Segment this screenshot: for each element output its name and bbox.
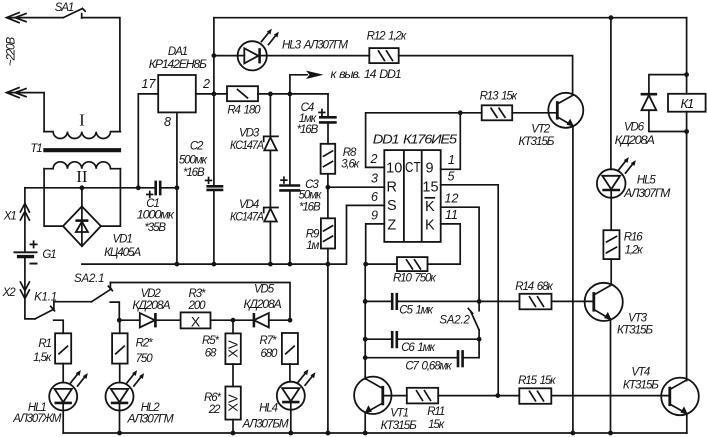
diode VD6 — [641, 75, 687, 132]
wire R9 to ground row and bus — [327, 249, 329, 434]
svg-text:АЛ307ЖМ: АЛ307ЖМ — [12, 413, 62, 425]
junction C6 left — [363, 337, 368, 342]
svg-text:R1: R1 — [38, 338, 51, 350]
junction VD4 ground — [268, 262, 273, 267]
wire pin5 down — [441, 185, 499, 396]
svg-text:Z: Z — [387, 217, 396, 233]
junction K1 bottom — [684, 129, 689, 134]
svg-text:R15 15к: R15 15к — [518, 375, 556, 387]
svg-text:HL3 АЛ307ГМ: HL3 АЛ307ГМ — [282, 39, 349, 51]
resistor R16 — [603, 230, 619, 259]
svg-text:X: X — [191, 313, 201, 329]
svg-text:2: 2 — [370, 152, 378, 166]
svg-text:750: 750 — [136, 353, 154, 365]
svg-text:КС147А: КС147А — [230, 140, 264, 152]
svg-text:R10 750к: R10 750к — [393, 272, 436, 284]
svg-text:R5*: R5* — [202, 335, 220, 347]
junction VT3 emitter bus — [608, 431, 613, 436]
wire top bus — [214, 17, 687, 19]
transistor VT1 — [354, 377, 391, 414]
junction output node — [212, 92, 217, 97]
svg-text:С5 1мк: С5 1мк — [399, 305, 433, 317]
label minus — [30, 263, 38, 265]
svg-text:КТ315Б: КТ315Б — [617, 325, 654, 337]
wire R5 top lead — [232, 320, 234, 333]
junction C5 right pin12 — [477, 299, 482, 304]
wire X1 battery column — [24, 188, 26, 251]
svg-text:R7*: R7* — [260, 335, 278, 347]
capacitor C3 — [279, 94, 300, 264]
resistor R15 — [519, 388, 551, 404]
svg-text:С2: С2 — [190, 141, 204, 153]
wire ground row — [82, 205, 347, 264]
junction HL2 bus — [117, 431, 122, 436]
svg-text:VT1: VT1 — [390, 408, 408, 420]
LED HL3 — [238, 41, 267, 70]
transformer secondary winding II — [44, 162, 120, 169]
svg-text:VD6: VD6 — [624, 122, 645, 134]
transistor VT2 — [548, 93, 583, 128]
svg-text:*35В: *35В — [144, 222, 166, 234]
wire R15 row to VT4 — [498, 395, 670, 397]
wire R8 to pin3 node — [327, 174, 329, 187]
svg-text:SA1: SA1 — [55, 2, 74, 14]
svg-text:VD4: VD4 — [239, 199, 259, 211]
svg-text:I: I — [79, 111, 85, 130]
junction HL5 top bus — [609, 15, 614, 20]
junction C6 right — [477, 337, 482, 342]
wire K1.1 to SA2.1 pivot — [54, 301, 92, 303]
svg-text:КТ315Б: КТ315Б — [381, 420, 418, 432]
svg-text:68: 68 — [205, 347, 217, 359]
junction VT2 emitter bus — [571, 431, 576, 436]
svg-text:КД208А: КД208А — [615, 135, 656, 147]
junction HL4 bus — [288, 431, 293, 436]
junction C3 ground — [288, 262, 293, 267]
wire R10 right to pin11 — [428, 224, 461, 264]
wire secondary left to bridge — [44, 169, 63, 226]
junction VD3 top — [268, 92, 273, 97]
capacitor C5 — [365, 293, 479, 310]
wire R4 to C4 corner — [258, 93, 328, 95]
wire R2 to HL2 — [119, 364, 121, 383]
wire R10 left lead — [366, 263, 397, 265]
resistor R1 — [55, 333, 71, 363]
wire DA1 pin8 column — [176, 112, 178, 264]
svg-text:6: 6 — [371, 190, 378, 204]
diode VD5 — [254, 313, 290, 327]
svg-text:X2: X2 — [2, 287, 17, 299]
wire pin2 to top link — [366, 113, 461, 168]
svg-text:КЦ405А: КЦ405А — [104, 247, 141, 259]
label K-bar — [425, 198, 435, 215]
svg-text:X1: X1 — [3, 210, 17, 222]
junction pin9 RC node — [363, 262, 368, 267]
svg-text:R16: R16 — [624, 232, 644, 244]
svg-text:K: K — [425, 199, 435, 215]
svg-text:КД208А: КД208А — [132, 300, 170, 312]
wire pin6 row — [347, 204, 385, 206]
HL3 arrows — [262, 29, 279, 45]
wire VT2 emitter to bus — [572, 126, 574, 433]
svg-text:680: 680 — [260, 348, 278, 360]
svg-text:CT: CT — [405, 160, 421, 176]
svg-text:17: 17 — [142, 77, 157, 91]
svg-text:R: R — [387, 179, 397, 195]
svg-text:VD5: VD5 — [254, 284, 275, 296]
svg-text:10: 10 — [386, 161, 402, 177]
wire R1 to HL1 — [62, 364, 64, 383]
svg-text:8: 8 — [164, 115, 171, 129]
svg-text:С1: С1 — [146, 198, 159, 210]
svg-text:SA2.2: SA2.2 — [439, 314, 470, 326]
battery G1 — [14, 252, 38, 256]
svg-text:DA1: DA1 — [168, 46, 188, 58]
wire VT1 emitter to bus — [364, 413, 366, 433]
HL2 arrows — [127, 370, 144, 386]
svg-text:АЛ307БМ: АЛ307БМ — [241, 418, 289, 430]
mains plug arrow bottom — [7, 88, 27, 98]
junction VT1 emitter bus — [363, 431, 368, 436]
HL5 arrows — [619, 157, 636, 173]
resistor R11 — [407, 388, 438, 404]
wire pin12 down — [441, 207, 479, 301]
wire pin3 row — [328, 186, 384, 188]
capacitor C2 — [206, 186, 223, 190]
svg-text:II: II — [76, 167, 88, 186]
wire R5 to R6 — [232, 364, 234, 386]
svg-text:*16В: *16В — [297, 124, 319, 136]
wire secondary right to bridge — [101, 169, 121, 226]
svg-text:HL2: HL2 — [141, 402, 161, 414]
svg-text:1000мк: 1000мк — [137, 210, 175, 222]
resistor R5 — [225, 333, 240, 364]
relay coil K1 — [668, 94, 706, 112]
wire SA2.1 upper contact row — [110, 283, 290, 321]
connector X1 arrow — [20, 204, 29, 221]
svg-text:R2*: R2* — [136, 338, 154, 350]
svg-text:К1: К1 — [680, 96, 694, 111]
svg-text:1: 1 — [448, 153, 455, 167]
svg-text:DD1 К176ИЕ5: DD1 К176ИЕ5 — [373, 132, 458, 147]
wire R13 leads — [460, 112, 557, 114]
wire plus row — [25, 187, 156, 189]
transistor VT3 — [585, 283, 623, 321]
junction pin3 node — [326, 185, 331, 190]
connector X2 arrow — [20, 282, 29, 299]
wire pin1 to top link — [441, 113, 461, 170]
svg-text:С6 1мк: С6 1мк — [401, 342, 435, 354]
svg-text:КТ315Б: КТ315Б — [518, 136, 555, 148]
wire SA1 to transformer primary — [82, 18, 120, 132]
label plus C3 — [280, 176, 287, 183]
svg-text:11: 11 — [445, 208, 458, 222]
LED HL4 — [277, 382, 305, 433]
wire R3 to VD5 — [211, 319, 254, 321]
label plus C1 — [146, 191, 153, 198]
junction R7 top — [288, 318, 293, 323]
svg-text:15: 15 — [422, 179, 438, 195]
wire R14 row — [479, 300, 594, 302]
svg-text:500мк: 500мк — [179, 155, 208, 167]
svg-text:*16В: *16В — [183, 167, 205, 179]
HL1 arrows — [71, 370, 88, 386]
svg-text:КР142ЕН8Б: КР142ЕН8Б — [149, 59, 208, 71]
svg-text:12: 12 — [445, 192, 459, 206]
svg-text:S: S — [387, 198, 397, 214]
resistor R10 — [397, 257, 428, 271]
diode VD2 — [119, 313, 180, 327]
svg-text:R8: R8 — [343, 147, 357, 159]
wire bottom bus — [63, 432, 687, 434]
wire VT4 emitter to bus corner — [686, 414, 688, 433]
wire X2 to K1.1 — [25, 298, 35, 319]
wire VT3 emitter to bus — [610, 319, 612, 433]
wire K1 column top — [686, 18, 688, 94]
transformer T1 primary winding I — [44, 132, 120, 139]
svg-text:1,5к: 1,5к — [33, 352, 52, 364]
svg-text:R14 68к: R14 68к — [515, 281, 553, 293]
wire HL3 row left — [214, 55, 238, 57]
IC DD1 K176IE5 body — [384, 150, 440, 242]
svg-text:VD3: VD3 — [239, 127, 260, 139]
wire mains bottom to primary — [7, 93, 44, 132]
svg-text:R4 180: R4 180 — [227, 105, 261, 117]
svg-text:HL5: HL5 — [637, 175, 657, 187]
junction pin8 ground — [175, 262, 180, 267]
svg-text:9: 9 — [371, 209, 378, 223]
junction HL3 anode — [212, 53, 217, 58]
svg-text:КТ315Б: КТ315Б — [623, 380, 660, 392]
wire R2 top — [119, 320, 121, 333]
transformer core — [43, 148, 121, 152]
svg-text:15к: 15к — [428, 419, 445, 431]
zener VD3 — [264, 94, 278, 208]
label plus C2 — [205, 177, 212, 184]
HL4 arrows — [298, 369, 315, 385]
wire RC column — [364, 264, 366, 379]
wire R12 to VT2 collector — [399, 56, 573, 95]
wire battery to X2 — [24, 258, 26, 298]
resistor R3 — [181, 312, 211, 329]
svg-text:SA2.1: SA2.1 — [74, 273, 104, 285]
LED HL1 — [49, 383, 77, 434]
svg-text:5: 5 — [448, 170, 455, 184]
wire K1.1 lower contact to R1 — [54, 320, 64, 333]
junction C7 left — [363, 355, 368, 360]
wire HL3 to R12 — [267, 55, 370, 57]
svg-text:K: K — [425, 217, 435, 233]
switch SA2.1 — [92, 283, 113, 302]
svg-text:VD2: VD2 — [141, 288, 162, 300]
svg-text:1м: 1м — [306, 240, 319, 252]
wire to pin14 arrow — [290, 75, 307, 94]
switch SA1 — [63, 9, 85, 19]
svg-text:КД208А: КД208А — [244, 299, 282, 311]
svg-text:АЛ307ГМ: АЛ307ГМ — [126, 414, 174, 426]
svg-text:R9: R9 — [306, 228, 320, 240]
svg-text:R11: R11 — [427, 406, 445, 418]
svg-text:АЛ307ГМ: АЛ307ГМ — [623, 188, 671, 200]
svg-text:~220В: ~220В — [6, 37, 18, 67]
voltage regulator DA1 — [158, 75, 196, 112]
svg-text:КС147А: КС147А — [230, 212, 264, 224]
resistor R6 — [225, 387, 240, 420]
switch SA2.2 — [468, 301, 479, 339]
wire SA2.1 lower contact to VD2 node — [110, 302, 119, 320]
svg-text:9: 9 — [425, 161, 433, 177]
junction R11 R15 pin5 — [495, 393, 500, 398]
junction R5 top — [231, 318, 236, 323]
resistor R9 — [321, 187, 335, 248]
relay contact K1.1 — [35, 302, 55, 319]
svg-text:22: 22 — [208, 404, 221, 416]
wire C1 to pin8 node — [160, 187, 177, 189]
mains plug arrow top — [7, 13, 27, 23]
transistor VT4 — [661, 378, 699, 416]
capacitor C4 — [319, 94, 337, 144]
svg-text:50мк: 50мк — [299, 190, 322, 202]
svg-text:Т1: Т1 — [30, 143, 42, 155]
junction pin8 node — [175, 185, 180, 190]
label plus — [30, 240, 38, 248]
junction pin17 col — [136, 185, 141, 190]
svg-text:VT3: VT3 — [628, 313, 647, 325]
junction R13 node — [458, 110, 463, 115]
capacitor C1 — [156, 181, 161, 196]
svg-text:VD1: VD1 — [113, 233, 133, 245]
junction R6 bus — [231, 431, 236, 436]
capacitor C6 — [365, 331, 479, 348]
wire pin9 to RC node — [366, 224, 385, 264]
rectifier bridge VD1 — [63, 206, 101, 246]
resistor R12 — [369, 48, 398, 63]
svg-text:200: 200 — [188, 300, 207, 312]
svg-text:С7 0,68мк: С7 0,68мк — [405, 361, 452, 373]
svg-text:*16В: *16В — [299, 201, 321, 213]
wire DA1 pin17 to plus row — [138, 94, 158, 188]
resistor R7 — [282, 333, 298, 364]
wire R16 to VT3 collector — [610, 259, 612, 283]
wire mains top to SA1 — [7, 17, 63, 19]
svg-text:3,6к: 3,6к — [341, 159, 360, 171]
svg-text:R6*: R6* — [204, 392, 222, 404]
arrow to pin14 DD1 — [306, 71, 324, 79]
svg-text:XV: XV — [226, 394, 241, 412]
junction arrow-C3 node — [288, 92, 293, 97]
wire VT1 base to R11 — [383, 395, 407, 397]
wire plus9V column — [213, 18, 215, 264]
capacitor C7 — [365, 339, 479, 367]
svg-text:1,2к: 1,2к — [625, 245, 644, 257]
resistor R13 — [482, 105, 513, 120]
svg-text:3: 3 — [371, 172, 378, 186]
junction C2 ground — [212, 262, 217, 267]
svg-text:R12 1,2к: R12 1,2к — [367, 30, 407, 42]
svg-text:VT4: VT4 — [631, 367, 649, 379]
wire R7 to HL4 — [289, 364, 291, 382]
junction R9 ground row — [326, 262, 331, 267]
svg-text:XV: XV — [226, 340, 241, 358]
wire R6 to bus — [232, 420, 234, 433]
svg-text:VT2: VT2 — [531, 123, 550, 135]
junction VD2 node — [117, 318, 122, 323]
zener VD4 — [264, 208, 278, 265]
svg-text:R13 15к: R13 15к — [480, 91, 518, 103]
wire DA1 pin2 output — [196, 93, 227, 95]
LED HL5 — [597, 169, 626, 230]
svg-text:R3*: R3* — [189, 288, 207, 300]
wire bus to HL5 — [610, 18, 612, 170]
label plus C4 — [318, 109, 325, 116]
svg-text:2: 2 — [202, 77, 210, 91]
junction R9 bus — [326, 431, 331, 436]
svg-text:к выв. 14 DD1: к выв. 14 DD1 — [331, 69, 402, 81]
wire R11 to pin5 node — [438, 395, 498, 397]
svg-text:G1: G1 — [42, 249, 56, 261]
resistor R4 — [227, 86, 258, 101]
junction bridge plus — [80, 185, 85, 190]
resistor R14 — [520, 294, 552, 310]
junction K1 top — [684, 72, 689, 77]
junction C5 left — [363, 299, 368, 304]
resistor R2 — [112, 333, 128, 363]
svg-text:HL4: HL4 — [259, 403, 278, 415]
wire bridge top to plus row — [81, 188, 83, 207]
wire K1 bottom — [686, 112, 688, 381]
resistor R8 — [321, 144, 336, 174]
LED HL2 — [106, 383, 134, 434]
